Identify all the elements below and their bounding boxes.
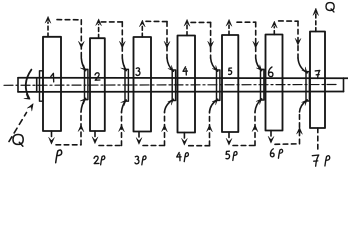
label Q bottom left [13, 135, 23, 145]
flange F4 [172, 70, 175, 101]
shaft right end edge [343, 78, 345, 92]
numeral 7 label of disc 7 [315, 70, 320, 78]
disc 5 [222, 35, 238, 132]
label 6P under disc 6 [270, 149, 274, 157]
bottom riser gap 5 [254, 112, 256, 146]
top dashed run gap 4 [191, 21, 211, 23]
top dashed run gap 2 [101, 21, 122, 23]
top dashed run gap 5 [237, 21, 256, 23]
label 2P under disc 2 [94, 156, 99, 163]
flange F2 [85, 69, 88, 99]
bottom arrow out of disc 1 [51, 131, 53, 137]
label 7P under disc 7 [312, 155, 318, 166]
top dashed run gap 6 [279, 20, 298, 22]
top arrow out of disc 2 [98, 25, 100, 39]
shaft top line [18, 77, 348, 79]
bottom dashed run gap 5 [233, 145, 255, 147]
top arrow out of disc 1 [47, 22, 49, 37]
bottom arrow out of disc 6 [270, 131, 272, 137]
top arrow out of disc 6 [273, 27, 275, 35]
bottom riser gap 1 [80, 112, 82, 145]
left nut left edge [17, 78, 19, 92]
top riser gap 1 [80, 20, 82, 58]
disc 7 [310, 32, 325, 129]
bottom dashed run gap 4 [189, 145, 210, 147]
bottom dashed run gap 3 [143, 145, 165, 147]
label 4P under disc 4 [177, 153, 181, 158]
bottom arrow out of disc 2 [94, 131, 96, 137]
disc 6 [266, 35, 283, 131]
bottom riser gap 2 [121, 112, 123, 146]
top riser gap 6 [297, 21, 299, 58]
bottom dashed run gap 1 [56, 144, 81, 146]
numeral 4 label of disc 4 [183, 67, 187, 72]
flange F5 [217, 70, 220, 100]
flange F6 [261, 69, 264, 100]
bottom dashed run gap 6 [275, 143, 300, 146]
bottom riser gap 6 [299, 112, 301, 144]
label 5P under disc 5 [226, 151, 230, 159]
numeral 5 label of disc 5 [229, 68, 232, 74]
bottom arrow out of disc 5 [228, 132, 230, 138]
flange F3 [125, 69, 128, 101]
bottom arrow out of disc 3 [138, 132, 140, 138]
top dashed run gap 3 [146, 20, 167, 22]
bottom riser gap 3 [164, 112, 166, 146]
label Q top right [326, 3, 334, 11]
top riser gap 2 [121, 22, 123, 58]
numeral 2 label of disc 2 [95, 73, 100, 80]
flange F1 [40, 71, 43, 101]
top riser gap 4 [210, 22, 212, 58]
disc 3 [134, 37, 152, 132]
top arrow out of disc 5 [228, 25, 230, 35]
top riser gap 5 [255, 22, 257, 58]
shaft bottom line [18, 91, 344, 93]
bottom arrow out of disc 4 [183, 133, 185, 139]
bottom riser gap 4 [209, 112, 211, 146]
numeral 1 label of disc 1 [51, 73, 54, 82]
label P under disc 1 [56, 150, 62, 163]
numeral 6 label of disc 6 [268, 67, 272, 77]
bottom dashed run gap 2 [99, 145, 122, 147]
flange F7 [306, 72, 309, 101]
top dashed run gap 1 [57, 19, 81, 21]
left nut right edge [36, 78, 38, 92]
top riser gap 3 [166, 22, 168, 58]
disc 1 [43, 37, 61, 131]
disc 7 bottom dashed lead [317, 128, 319, 152]
top arrow out of disc 3 [141, 26, 143, 37]
Q force arrow bottom left [9, 113, 27, 142]
label 3P under disc 3 [135, 156, 139, 164]
shaft centerline [4, 84, 338, 87]
top arrow out of disc 4 [186, 25, 188, 36]
left rotation arc arrow [26, 70, 32, 99]
Q arrow out of disc 7 top [315, 14, 317, 32]
numeral 3 label of disc 3 [136, 68, 140, 76]
disc 4 [178, 36, 196, 133]
disc 2 [90, 38, 105, 131]
